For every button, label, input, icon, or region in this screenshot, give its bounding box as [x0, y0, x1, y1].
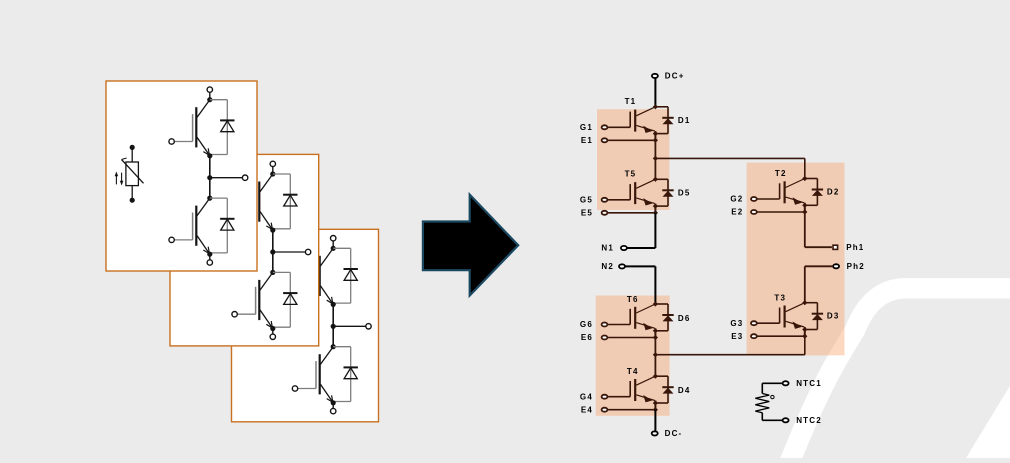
wire T1 emitter to T5 collector: [654, 140, 656, 179]
gate terminal (card3): [292, 386, 316, 391]
label DC-: [665, 429, 683, 438]
label G6: [580, 320, 593, 329]
transistor T1: [630, 107, 655, 133]
diode D4: [655, 376, 673, 403]
svg-text:D3: D3: [827, 312, 840, 321]
svg-text:DC+: DC+: [665, 72, 685, 81]
label T1: [625, 97, 637, 106]
junction node below T2: [802, 203, 807, 212]
emitter sense terminal E4: [602, 407, 658, 412]
junction node T1 collector: [653, 104, 658, 109]
svg-text:DC-: DC-: [665, 429, 683, 438]
node emitter-top (card1): [207, 153, 212, 158]
collector terminal (card2): [270, 161, 275, 174]
freewheeling diode (card1): [210, 198, 235, 253]
wire mid column (card1): [209, 156, 211, 198]
svg-text:T2: T2: [775, 169, 787, 178]
junction node T6 collector: [653, 301, 658, 306]
emitter terminal (card3): [331, 403, 336, 414]
label G1: [580, 123, 593, 132]
highlight region T2/T3: [747, 163, 845, 356]
decorative white swoosh band: [786, 288, 1010, 463]
phase terminal (card1): [242, 175, 247, 180]
wire N2 to T6 collector: [625, 266, 655, 304]
svg-text:D5: D5: [678, 188, 691, 197]
label D6: [678, 314, 691, 323]
node collector (card1): [207, 97, 212, 102]
terminal N1: [621, 246, 627, 250]
gate terminal G6: [602, 323, 631, 327]
node collector-bottom (card1): [207, 196, 212, 201]
emitter sense terminal E6: [602, 335, 658, 340]
wire to phase terminal (card1): [210, 177, 243, 179]
varistor RV: [122, 145, 144, 203]
label E1: [581, 136, 593, 145]
decorative white corner: [966, 381, 1010, 458]
junction node below T6: [653, 328, 658, 337]
svg-text:D1: D1: [678, 116, 691, 125]
gate terminal G2: [751, 197, 780, 201]
node branch to T3: [653, 352, 658, 357]
label T3: [774, 294, 786, 303]
freewheeling diode (card3): [333, 248, 358, 303]
transistor T2: [780, 179, 805, 205]
freewheeling diode (card3): [333, 347, 358, 402]
label D2: [827, 188, 840, 197]
diode D1: [655, 107, 673, 134]
diode D5: [655, 179, 673, 206]
label T5: [625, 170, 637, 179]
emitter sense terminal E3: [751, 334, 807, 339]
svg-text:E5: E5: [581, 209, 593, 218]
collector terminal (card3): [331, 236, 336, 249]
svg-text:NTC1: NTC1: [796, 379, 822, 388]
emitter terminal (card1): [207, 254, 212, 265]
svg-text:Ph1: Ph1: [846, 243, 864, 252]
node branch to T2: [653, 156, 658, 161]
label D3: [827, 312, 840, 321]
gate terminal (card2): [232, 312, 256, 317]
label E3: [731, 332, 743, 341]
junction node below T3: [802, 327, 807, 336]
svg-text:G5: G5: [580, 196, 593, 205]
junction node T2 collector: [802, 176, 807, 181]
gate terminal (card3): [292, 287, 316, 292]
IGBT transistor (card1): [193, 198, 210, 254]
transition arrow: [423, 195, 518, 296]
label T4: [627, 367, 639, 376]
wire Ph2 to T3 collector: [805, 266, 833, 302]
terminal DC+: [652, 74, 658, 107]
node midpoint (card1): [207, 175, 212, 180]
label D5: [678, 188, 691, 197]
emitter terminal (card2): [270, 329, 275, 340]
highlight region T6/T4: [596, 296, 670, 416]
node emitter-top (card2): [270, 228, 275, 233]
highlight region T1/T5: [597, 109, 669, 210]
junction node T5 collector: [653, 177, 658, 182]
wire to phase terminal (card3): [333, 325, 366, 327]
junction node below T4: [653, 400, 658, 409]
wire T4 emitter to DC-: [654, 410, 656, 431]
emitter sense terminal E5: [602, 210, 658, 215]
diode D2: [805, 179, 823, 206]
freewheeling diode (card1): [210, 100, 235, 155]
wire mid column (card2): [272, 230, 274, 272]
svg-text:NTC2: NTC2: [796, 416, 822, 425]
transistor T5: [630, 179, 655, 205]
svg-text:E3: E3: [731, 332, 743, 341]
svg-text:T1: T1: [625, 97, 637, 106]
label DC+: [665, 72, 685, 81]
gate terminal (card1): [169, 237, 193, 242]
gate terminal G4: [602, 395, 631, 399]
svg-text:E2: E2: [731, 208, 743, 217]
svg-text:N1: N1: [601, 244, 614, 253]
IGBT transistor (card1): [193, 100, 210, 156]
IGBT transistor (card3): [316, 347, 333, 403]
svg-text:G3: G3: [730, 319, 743, 328]
svg-text:D6: D6: [678, 314, 691, 323]
IGBT transistor (card2): [256, 272, 273, 328]
emitter sense terminal E2: [751, 209, 807, 214]
junction node below T5: [653, 204, 658, 213]
label NTC2: [796, 416, 822, 425]
freewheeling diode (card2): [273, 272, 298, 327]
thermistor R-NTC: [755, 394, 774, 413]
label T6: [627, 295, 639, 304]
label G3: [730, 319, 743, 328]
svg-text:G4: G4: [580, 392, 593, 401]
svg-text:N2: N2: [601, 262, 614, 271]
label D1: [678, 116, 691, 125]
node emitter-bottom (card1): [207, 252, 212, 257]
svg-text:G1: G1: [580, 123, 593, 132]
svg-text:T4: T4: [627, 367, 639, 376]
phase terminal (card2): [305, 249, 310, 254]
node collector (card3): [331, 246, 336, 251]
svg-text:D2: D2: [827, 188, 840, 197]
svg-text:Ph2: Ph2: [847, 262, 865, 271]
IGBT transistor (card3): [316, 248, 333, 304]
diode D6: [655, 304, 673, 331]
wire thermistor to NTC2: [762, 413, 782, 421]
junction node T4 collector: [653, 374, 658, 379]
label N1: [601, 244, 614, 253]
junction node below T1: [653, 131, 658, 140]
gate terminal (card2): [232, 213, 256, 218]
label E4: [581, 405, 593, 414]
gate terminal G1: [602, 125, 631, 129]
svg-text:G2: G2: [730, 195, 743, 204]
node collector-bottom (card2): [270, 270, 275, 275]
wire to phase terminal (card2): [273, 251, 306, 253]
terminal Ph2: [833, 264, 839, 268]
label G2: [730, 195, 743, 204]
svg-text:G6: G6: [580, 320, 593, 329]
terminal Ph1: [833, 245, 838, 249]
gate terminal G5: [602, 198, 631, 202]
wire NTC1 to thermistor: [762, 383, 782, 393]
node emitter-bottom (card3): [331, 400, 336, 405]
svg-text:D4: D4: [678, 386, 691, 395]
terminal N2: [619, 264, 625, 268]
collector terminal (card1): [207, 87, 212, 100]
node collector-bottom (card3): [331, 344, 336, 349]
svg-text:T5: T5: [625, 170, 637, 179]
emitter sense terminal E1: [602, 138, 658, 143]
terminal DC-: [652, 431, 658, 435]
svg-text:E1: E1: [581, 136, 593, 145]
IGBT transistor (card2): [256, 174, 273, 230]
label G4: [580, 392, 593, 401]
wire T6 emitter to T4 collector: [654, 338, 656, 377]
wire T2 emitter to Ph1: [805, 212, 832, 247]
module card 1: [106, 81, 257, 271]
node midpoint (card3): [331, 324, 336, 329]
label E2: [731, 208, 743, 217]
module card 3: [232, 229, 379, 421]
terminal NTC1: [783, 381, 789, 385]
gate terminal (card1): [169, 139, 193, 144]
junction node T3 collector: [802, 300, 807, 305]
transistor T3: [780, 303, 805, 329]
transistor T4: [630, 376, 655, 402]
varistor current arrows: [115, 172, 124, 186]
label E5: [581, 209, 593, 218]
node midpoint (card2): [270, 249, 275, 254]
gate terminal G3: [751, 321, 780, 325]
label N2: [601, 262, 614, 271]
node emitter-bottom (card2): [270, 326, 275, 331]
svg-text:E4: E4: [581, 405, 593, 414]
label E6: [581, 333, 593, 342]
svg-text:T6: T6: [627, 295, 639, 304]
wire branch to T3 emitter: [655, 336, 804, 355]
phase terminal (card3): [366, 324, 371, 329]
terminal NTC2: [783, 418, 789, 422]
label NTC1: [796, 379, 822, 388]
transistor T6: [630, 304, 655, 330]
node collector (card2): [270, 171, 275, 176]
svg-text:T3: T3: [774, 294, 786, 303]
wire mid column (card3): [332, 304, 334, 346]
wire branch to T2 collector: [655, 158, 804, 178]
label T2: [775, 169, 787, 178]
label G5: [580, 196, 593, 205]
label Ph1: [846, 243, 864, 252]
svg-text:E6: E6: [581, 333, 593, 342]
diode D3: [805, 303, 823, 330]
module card 2: [170, 154, 319, 346]
node emitter-top (card3): [331, 302, 336, 307]
label D4: [678, 386, 691, 395]
wire T5 emitter to N1: [627, 213, 655, 248]
freewheeling diode (card2): [273, 174, 298, 229]
label Ph2: [847, 262, 865, 271]
